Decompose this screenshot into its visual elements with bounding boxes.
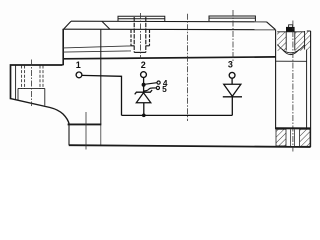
bolt nut (solid) xyxy=(286,27,295,32)
diode VD2 triangle xyxy=(224,84,241,96)
bottom ground line xyxy=(69,145,311,147)
right cavity wall vertical xyxy=(275,30,277,129)
housing left tab inner ledge xyxy=(18,88,45,105)
mid vertical edge xyxy=(100,30,102,125)
wire from terminal 1 xyxy=(82,75,122,115)
boss 2 on top xyxy=(209,16,255,21)
bolt through bushing xyxy=(286,25,295,51)
wire terminal 2 to zener xyxy=(143,77,145,92)
right foot hatch right block xyxy=(300,129,310,146)
terminal 1 xyxy=(76,72,82,78)
right chamfer xyxy=(267,22,276,30)
main body outline xyxy=(63,21,311,147)
svg-text:3: 3 xyxy=(228,60,233,70)
right outer edge xyxy=(310,31,312,147)
pin 5 terminal xyxy=(156,86,159,89)
left step chamfer xyxy=(102,21,110,29)
junction dot bottom node xyxy=(142,114,146,118)
wire terminal 3 to diode xyxy=(231,78,233,84)
top front edge xyxy=(64,28,276,31)
centerline of tab hole xyxy=(31,60,33,107)
left foot edge xyxy=(68,124,70,145)
bushing cup curves xyxy=(277,45,304,53)
main front face line xyxy=(63,57,275,59)
bottom wire xyxy=(122,114,233,116)
top back edge xyxy=(71,20,267,23)
right inner wall xyxy=(306,50,308,129)
terminal 2 xyxy=(141,72,147,78)
housing left tab hidden hole lines xyxy=(22,66,43,90)
zener diode VD1 triangle xyxy=(136,93,151,103)
junction dot node 2 xyxy=(142,83,146,87)
right foot hatch left block xyxy=(276,129,286,146)
tap wire to pin 5 xyxy=(144,88,156,91)
tap wire to pin 4 xyxy=(144,83,157,85)
right foot xyxy=(275,127,311,129)
svg-text:5: 5 xyxy=(162,84,167,94)
right foot bolt hole lines xyxy=(290,129,294,146)
svg-text:1: 1 xyxy=(76,60,81,70)
diode VD2 cathode wire xyxy=(231,97,233,116)
boss 1 on top xyxy=(118,16,165,21)
section centerline between bosses xyxy=(187,14,189,121)
diode VD2 cathode bar xyxy=(223,96,242,98)
interior ledge line lower xyxy=(63,51,131,52)
right top rim xyxy=(307,30,311,32)
centerline right bolt xyxy=(292,21,294,152)
housing left tab outline xyxy=(11,65,70,125)
terminal 3 xyxy=(229,72,235,78)
zener diode VD1 cathode bar xyxy=(135,90,152,94)
centerline of diode VD2 / boss 2 xyxy=(232,10,234,62)
interior ledge line xyxy=(63,46,131,48)
left foot centerline xyxy=(85,112,87,150)
bottom step xyxy=(68,123,102,125)
zener anode wire xyxy=(143,103,145,116)
bushing cavity outline xyxy=(277,31,304,55)
left chamfer xyxy=(64,21,72,29)
boss 1 stud hidden lines xyxy=(131,17,150,52)
right bushing cavity hatch xyxy=(277,32,310,51)
left vertical edge xyxy=(62,29,64,66)
pin 4 terminal xyxy=(157,81,160,84)
right ledge line xyxy=(276,60,307,62)
centerline of boss 1 hole xyxy=(139,13,141,59)
svg-text:2: 2 xyxy=(141,60,146,70)
